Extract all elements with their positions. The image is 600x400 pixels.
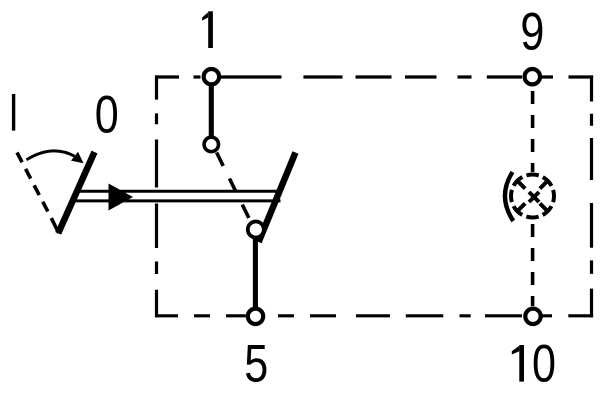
svg-text:5: 5 [244, 335, 268, 394]
svg-text:0: 0 [532, 335, 556, 394]
svg-text:0: 0 [95, 86, 119, 145]
svg-text:9: 9 [520, 2, 544, 61]
